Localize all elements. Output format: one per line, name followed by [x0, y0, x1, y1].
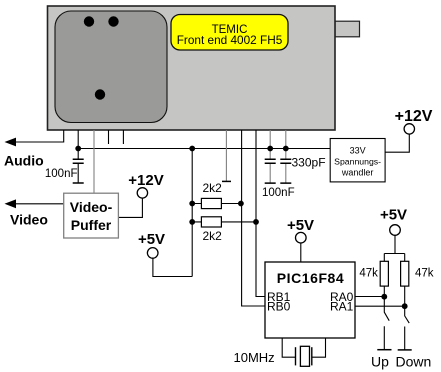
svg-text:PIC16F84: PIC16F84 — [277, 270, 344, 286]
svg-text:Video: Video — [10, 212, 48, 228]
svg-text:wandler: wandler — [341, 167, 374, 177]
svg-text:RB0: RB0 — [267, 299, 291, 313]
svg-text:10MHz: 10MHz — [234, 350, 275, 365]
svg-text:Puffer: Puffer — [71, 217, 112, 233]
svg-text:Video-: Video- — [70, 199, 113, 215]
svg-text:2k2: 2k2 — [203, 229, 223, 243]
svg-text:47k: 47k — [359, 268, 378, 280]
svg-text:100nF: 100nF — [45, 168, 78, 180]
svg-text:+12V: +12V — [395, 108, 433, 125]
svg-text:Down: Down — [396, 354, 432, 370]
svg-text:33V: 33V — [350, 146, 366, 156]
svg-text:+5V: +5V — [287, 217, 314, 234]
svg-text:+12V: +12V — [128, 172, 163, 189]
svg-text:RA1: RA1 — [330, 299, 354, 313]
svg-text:Front end 4002 FH5: Front end 4002 FH5 — [177, 33, 283, 47]
svg-text:Spannungs-: Spannungs- — [334, 157, 381, 167]
svg-text:47k: 47k — [415, 268, 434, 280]
svg-text:+5V: +5V — [138, 231, 165, 248]
svg-text:330pF: 330pF — [292, 156, 326, 170]
svg-text:Audio: Audio — [4, 153, 44, 169]
svg-text:+5V: +5V — [380, 207, 407, 224]
svg-text:100nF: 100nF — [262, 187, 295, 199]
svg-text:2k2: 2k2 — [203, 181, 223, 195]
svg-text:Up: Up — [371, 354, 389, 370]
